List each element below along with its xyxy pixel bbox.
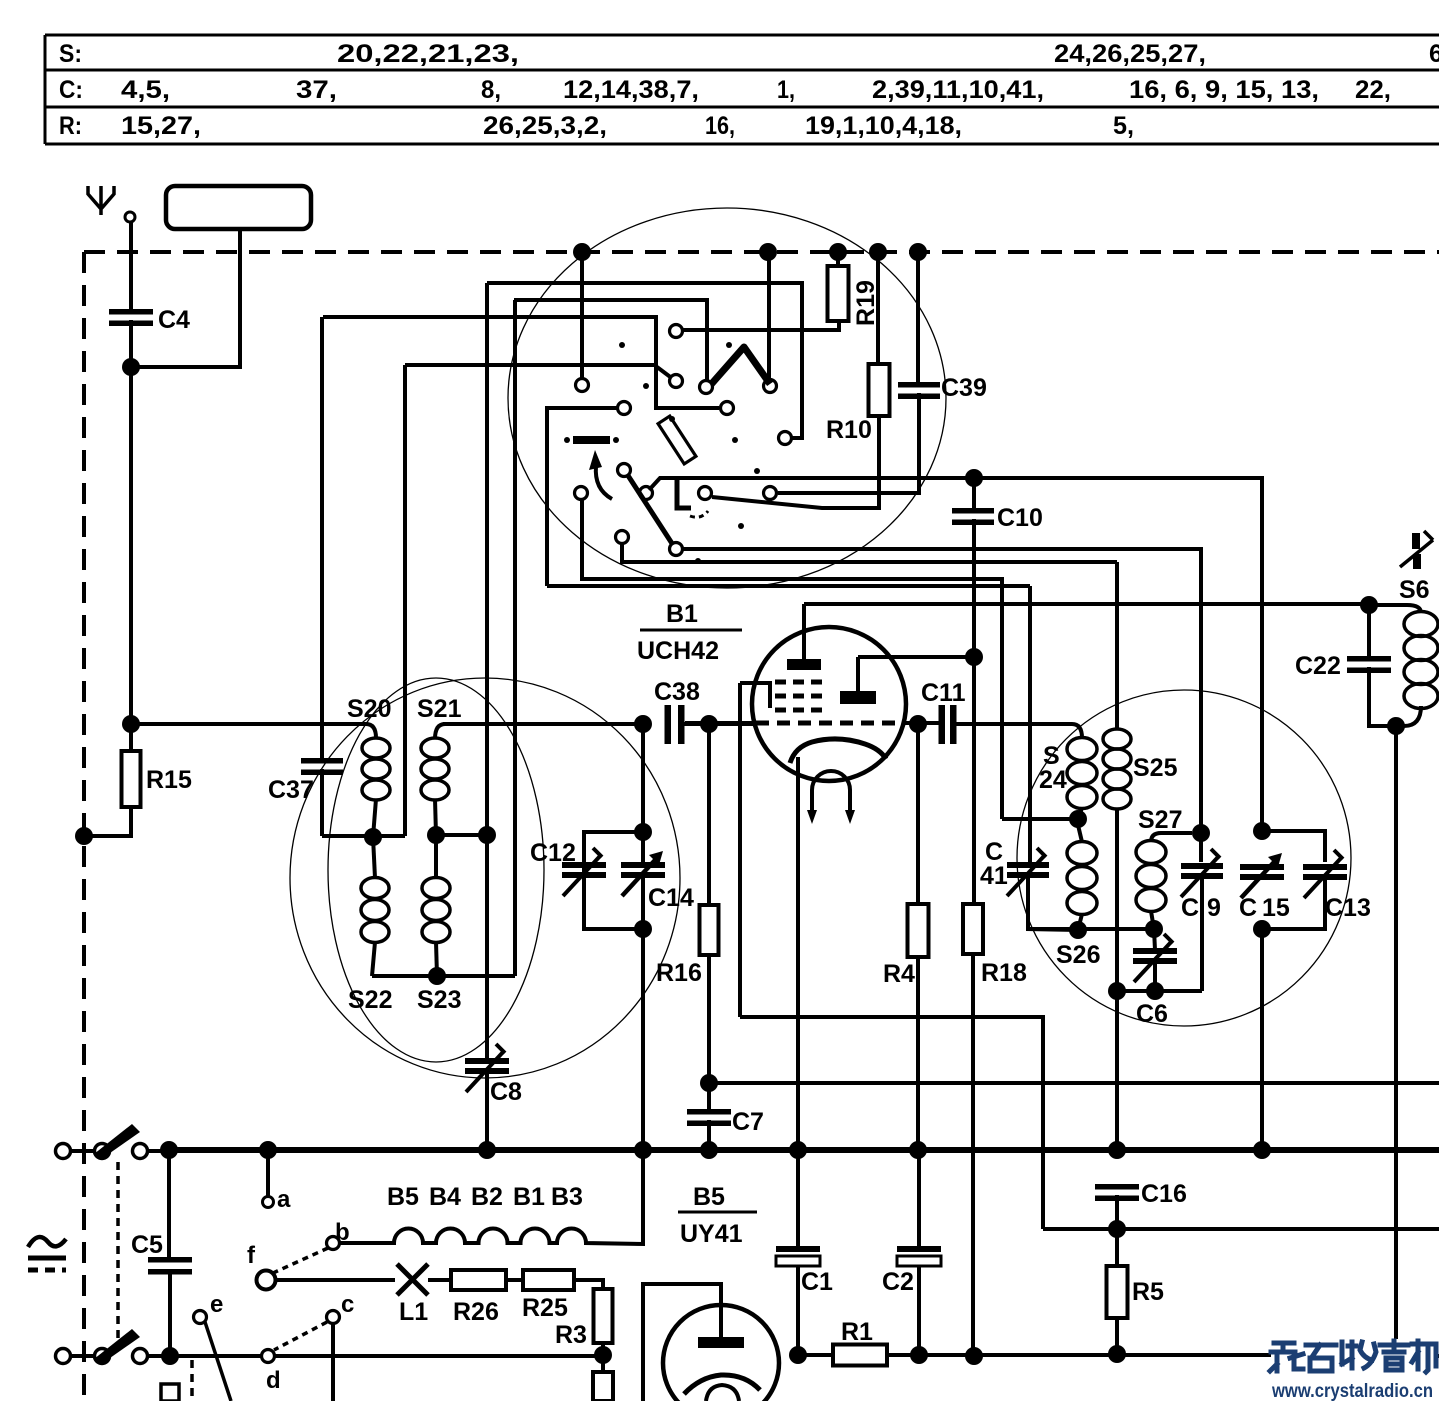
node C38 right (700, 715, 718, 733)
node S6 bottom (1387, 717, 1405, 735)
svg-text:B1: B1 (513, 1183, 545, 1211)
svg-text:S23: S23 (417, 986, 461, 1014)
svg-text:C12: C12 (530, 839, 576, 867)
trimmer C6 (1133, 929, 1177, 1028)
node C8 feed (478, 826, 496, 844)
svg-text:R5: R5 (1132, 1278, 1164, 1306)
svg-text:R16: R16 (656, 959, 702, 987)
wire S27 feed (683, 549, 1201, 833)
coil S25 (1103, 729, 1178, 809)
svg-text:B4: B4 (429, 1183, 461, 1211)
node S26 bottom (1069, 921, 1087, 939)
svg-text:C: C (1181, 894, 1199, 922)
node dashed bus 4 (869, 243, 887, 261)
svg-text:R19: R19 (852, 280, 880, 326)
tube B5 UY41 envelope (663, 1183, 779, 1401)
trimmer C8 (465, 835, 522, 1150)
node C15 bottom (1253, 920, 1271, 938)
svg-text:S:: S: (59, 40, 82, 68)
node C38 left (634, 715, 652, 733)
wire S21 to C38 (443, 722, 643, 726)
contact f (247, 1242, 276, 1290)
contact R19 (670, 325, 683, 338)
UY41 cathode (684, 1375, 760, 1394)
resistor R4 (883, 724, 929, 988)
lamp L1 (276, 1264, 428, 1326)
capacitor C5 (131, 1150, 192, 1356)
node S20 bottom (364, 828, 382, 846)
wire C4 down to main node (129, 320, 133, 724)
node dashed bus 2 (759, 243, 777, 261)
node C10 line (965, 469, 983, 487)
wire S22 bottom (372, 942, 375, 976)
node C2 bottom (910, 1346, 928, 1364)
capacitor C10 (952, 478, 1043, 657)
rotation arrow (589, 450, 612, 499)
component index table (45, 35, 1439, 144)
svg-text:e: e (210, 1291, 223, 1318)
svg-text:UCH42: UCH42 (637, 637, 719, 665)
wire left tap link (547, 408, 618, 586)
antenna terminal (88, 186, 135, 222)
wire junction row S20 (322, 834, 405, 838)
svg-text:8,: 8, (481, 76, 501, 104)
heater chain B5 B4 B2 B1 B3 (340, 1150, 643, 1244)
ganged tuning outline middle (290, 678, 680, 1078)
svg-text:12,14,38,7,: 12,14,38,7, (563, 76, 699, 104)
resistor R16 (656, 724, 719, 987)
wire R19 to contact (683, 321, 839, 330)
node C14 top (634, 823, 652, 841)
wire d line (178, 1354, 603, 1358)
contact S24 feed (575, 487, 588, 500)
rotor vane (658, 416, 696, 464)
wire R16 down (707, 955, 711, 1109)
node C6 bottom (1146, 982, 1164, 1000)
resistor R25 (506, 1270, 574, 1322)
wire R18 down to output line (971, 954, 975, 1356)
capacitor C2 (882, 1150, 941, 1355)
node triode anode junction (965, 648, 983, 666)
coil S21 (417, 695, 462, 800)
svg-text:R4: R4 (883, 960, 915, 988)
rotor arm lower (627, 474, 673, 545)
wire C10 feed (649, 478, 974, 490)
svg-text:16,: 16, (705, 112, 735, 140)
svg-text:19,1,10,4,18,: 19,1,10,4,18, (805, 112, 962, 140)
svg-text:15: 15 (1262, 894, 1290, 922)
heater (807, 771, 855, 824)
svg-text:C22: C22 (1295, 652, 1341, 680)
ganged tuning outline left (328, 678, 544, 1062)
svg-text:f: f (247, 1242, 256, 1269)
node R3 bottom (594, 1346, 612, 1364)
svg-text:a: a (277, 1186, 291, 1213)
svg-text:C16: C16 (1141, 1180, 1187, 1208)
wire c down (331, 1323, 335, 1401)
svg-text:S25: S25 (1133, 754, 1178, 782)
contact left tap (618, 402, 631, 415)
coil S6 (1369, 576, 1438, 726)
wire S21 feed (487, 283, 802, 438)
capacitor C39 (898, 252, 987, 402)
wire C38 node down (641, 724, 645, 865)
wire C7 to bus (707, 1120, 711, 1150)
svg-text:R15: R15 (146, 766, 192, 794)
wire AVC line (709, 1081, 1439, 1085)
svg-text:C8: C8 (490, 1078, 522, 1106)
svg-text:C4: C4 (158, 306, 190, 334)
trimmer C13 (1262, 831, 1371, 929)
svg-text:24,26,25,27,: 24,26,25,27, (1054, 40, 1206, 68)
svg-text:C38: C38 (654, 678, 700, 706)
wafer position dots (619, 342, 760, 564)
capacitor C16 (1095, 1180, 1187, 1229)
svg-text:B1: B1 (666, 600, 698, 628)
svg-text:C13: C13 (1325, 894, 1371, 922)
resistor R10 (826, 252, 890, 444)
contact c (327, 1291, 355, 1324)
diagonal to contact (657, 367, 673, 379)
svg-text:S27: S27 (1138, 806, 1182, 834)
coil S22 (348, 837, 392, 1014)
wire S25 feed (622, 543, 1117, 562)
switch link dashed (116, 1162, 120, 1346)
wire R10 to contact (712, 416, 879, 508)
capacitor C22 (1295, 605, 1396, 726)
fuse (161, 1384, 179, 1401)
svg-text:5,: 5, (1113, 112, 1134, 140)
UY41 anode (643, 1284, 744, 1401)
chassis dashed border (84, 252, 1439, 1401)
svg-text:c: c (341, 1291, 354, 1318)
wire antenna to C4 (129, 222, 133, 309)
svg-text:20,22,21,23,: 20,22,21,23, (337, 40, 519, 68)
svg-text:C5: C5 (131, 1231, 163, 1259)
coil S23 (417, 841, 461, 1014)
node S23 bottom (428, 967, 446, 985)
node above R15 (122, 715, 140, 733)
signal grid dashed (685, 721, 939, 725)
chassis junction (75, 827, 93, 845)
contact (576, 379, 589, 392)
node C7 top (700, 1074, 718, 1092)
svg-text:S26: S26 (1056, 941, 1100, 969)
wire S6 bottom down (1394, 726, 1398, 1339)
wire screen grid left (738, 683, 742, 1017)
UY41 heater (706, 1385, 739, 1401)
contact e (194, 1291, 224, 1324)
node S27 bottom (1145, 920, 1163, 938)
node padder junction (1108, 982, 1126, 1000)
wire C14 to earth bus (641, 875, 645, 1150)
svg-text:9: 9 (1207, 894, 1221, 922)
svg-text:R26: R26 (453, 1298, 499, 1326)
wire output right stub (1434, 1354, 1439, 1358)
contact S27 feed (670, 543, 683, 556)
bus node (160, 1141, 178, 1159)
svg-text:S6: S6 (1399, 576, 1430, 604)
resistor R15 (122, 724, 192, 807)
terminal box (166, 186, 311, 229)
bus node (700, 1141, 718, 1159)
bus node (789, 1141, 807, 1159)
node dashed bus 5 (909, 243, 927, 261)
oscillator section circle (1017, 690, 1351, 1026)
node C16 bottom (1108, 1220, 1126, 1238)
svg-text:C:: C: (59, 76, 83, 104)
switch link c-d dashed (274, 1322, 327, 1350)
wire screen line (1043, 1227, 1439, 1231)
wire S23 bottom (436, 942, 437, 976)
switch link b-f dashed (273, 1248, 328, 1273)
capacitor C1 (776, 1150, 833, 1355)
watermark logo (1270, 1341, 1436, 1372)
wire C38 to tube (684, 722, 756, 726)
wire box to node A (131, 229, 240, 367)
svg-text:R:: R: (59, 112, 82, 140)
svg-text:C10: C10 (997, 504, 1043, 532)
svg-text:22,: 22, (1355, 76, 1391, 104)
wire R5 down (1115, 1318, 1119, 1354)
node A (122, 358, 140, 376)
wire output line (887, 1353, 1271, 1357)
resistor R5 (1107, 1229, 1165, 1318)
svg-text:2,39,11,10,41,: 2,39,11,10,41, (872, 76, 1044, 104)
node R18 line (965, 1347, 983, 1365)
contact C10 feed (640, 487, 653, 500)
node R4 top (909, 715, 927, 733)
node S24 bottom (1069, 810, 1087, 828)
svg-text:R3: R3 (555, 1321, 587, 1349)
svg-text:www.crystalradio.cn: www.crystalradio.cn (1271, 1380, 1433, 1401)
node dashed bus 3 (829, 243, 847, 261)
variable capacitor C14 (621, 851, 694, 912)
tube B1 UCH42 envelope (637, 600, 906, 781)
svg-text:R10: R10 (826, 416, 872, 444)
svg-text:S22: S22 (348, 986, 392, 1014)
wire S24 bottom (1078, 808, 1082, 819)
trimmer C9 (1181, 833, 1223, 991)
node S27 top (1192, 824, 1210, 842)
wire S26 bottom (1078, 914, 1082, 930)
wire S24 tap (1002, 817, 1078, 821)
wire screen return (740, 1017, 1043, 1229)
wire S21 bottom (435, 799, 436, 835)
contact S25 feed (616, 531, 629, 544)
bus node (478, 1141, 496, 1159)
contact C39 (764, 487, 777, 500)
wire S25 vertical (1115, 562, 1119, 1150)
node C14 bottom (634, 920, 652, 938)
svg-text:C39: C39 (941, 374, 987, 402)
svg-text:C2: C2 (882, 1268, 914, 1296)
svg-text:C11: C11 (921, 679, 966, 707)
svg-text:C7: C7 (732, 1108, 764, 1136)
contact tap (670, 375, 683, 388)
wire C15 bottom to bus (1260, 929, 1264, 1150)
contact S21 feed (779, 432, 792, 445)
svg-text:4,5,: 4,5, (121, 76, 170, 104)
trimmer C41 (980, 586, 1078, 930)
wire R15 to chassis (84, 807, 131, 836)
svg-text:UY41: UY41 (680, 1220, 743, 1248)
node C15 top (1253, 822, 1271, 840)
bus node (259, 1141, 277, 1159)
capacitor C11 (921, 679, 966, 744)
svg-text:37,: 37, (296, 76, 337, 104)
bus node (1108, 1141, 1126, 1159)
contact R10 (699, 487, 712, 500)
coil S27 (1136, 806, 1192, 912)
contact lower right (721, 402, 734, 415)
capacitor C38 (654, 678, 700, 744)
svg-text:B2: B2 (471, 1183, 503, 1211)
wire C39 to contact (778, 393, 919, 493)
contact osc rotor (618, 464, 631, 477)
svg-text:C: C (1239, 894, 1257, 922)
rotor index mark (564, 436, 619, 444)
grid rows (740, 682, 823, 710)
svg-text:C1: C1 (801, 1268, 833, 1296)
bus node (1253, 1141, 1271, 1159)
svg-text:R25: R25 (522, 1294, 568, 1322)
wire S20 feed (405, 363, 656, 367)
svg-text:d: d (266, 1367, 281, 1394)
wire S27 bottom (1151, 911, 1154, 929)
svg-text:C37: C37 (268, 776, 314, 804)
svg-text:15,27,: 15,27, (121, 112, 201, 140)
resistor R18 (963, 657, 1027, 987)
svg-text:B3: B3 (551, 1183, 583, 1211)
node R5 bottom (1108, 1345, 1126, 1363)
capacitor C4 (109, 306, 190, 334)
cathode (790, 739, 886, 763)
svg-text:1,: 1, (777, 76, 795, 104)
node C5 bottom (161, 1347, 179, 1365)
node S6 top (1360, 596, 1378, 614)
wire junction row S21 (436, 833, 487, 837)
wire R4 to bus (916, 957, 920, 1150)
wire padder row (1117, 989, 1202, 993)
svg-text:S21: S21 (417, 695, 462, 723)
link dashes (190, 1360, 194, 1401)
mains switch lower pole (56, 1329, 163, 1365)
wire to contact (580, 252, 584, 381)
mains switch upper pole (56, 1124, 162, 1160)
wire S24 feed (582, 498, 1002, 819)
rotor V arm (700, 347, 777, 394)
node S21 bottom (427, 826, 445, 844)
triode anode (840, 657, 876, 704)
resistor R2 (593, 1343, 613, 1401)
wire C11 to S24 (956, 722, 1072, 726)
wire S20 bottom (373, 799, 376, 837)
wire bottom junction row (372, 974, 515, 978)
wire triode anode to C10 node (858, 655, 974, 659)
svg-text:24: 24 (1039, 766, 1067, 794)
adjustable core symbol (1400, 531, 1433, 569)
node dashed bus 1 (573, 243, 591, 261)
lever e (205, 1322, 231, 1401)
wire to rotor contact (767, 252, 771, 381)
mains AC symbol (28, 1237, 66, 1270)
capacitor C7 (687, 1108, 764, 1136)
svg-text:R18: R18 (981, 959, 1027, 987)
wire hexode anode to S6 line (804, 602, 1369, 606)
hexode anode (787, 604, 821, 670)
wire C37 feed (323, 317, 719, 408)
svg-text:26,25,3,2,: 26,25,3,2, (483, 112, 607, 140)
svg-text:L1: L1 (399, 1298, 428, 1326)
contact d (262, 1350, 281, 1395)
contact a (263, 1150, 292, 1213)
wire C10 node to C15 (974, 478, 1262, 831)
node C1 bottom (789, 1346, 807, 1364)
capacitor C37 (268, 317, 343, 836)
earth bus line (169, 1147, 1439, 1153)
wire V-arm feed (514, 300, 707, 381)
svg-text:B5: B5 (387, 1183, 419, 1211)
wire main line left (131, 722, 368, 726)
resistor R3 (555, 1280, 613, 1349)
rotary band switch S1 upper wafer (508, 208, 946, 588)
wire cathode down to bus (796, 757, 800, 1150)
svg-text:16, 6, 9, 15, 13,: 16, 6, 9, 15, 13, (1129, 76, 1319, 104)
coil S20 (347, 695, 391, 800)
coil S26 (1056, 825, 1100, 969)
svg-text:41: 41 (980, 862, 1008, 890)
resistor R19 (828, 252, 881, 326)
svg-text:6: 6 (1429, 40, 1439, 68)
bus node (634, 1141, 652, 1159)
resistor R26 (428, 1270, 506, 1326)
rotor stub (677, 478, 708, 517)
coil S24 (1039, 724, 1097, 809)
trimmer C12 (530, 832, 643, 929)
resistor R1 (798, 1318, 887, 1366)
bus node (909, 1141, 927, 1159)
variable capacitor C15 (1239, 853, 1290, 922)
wire C41 feed (547, 584, 1030, 588)
wire band tap risers (405, 283, 515, 976)
svg-text:R1: R1 (841, 1318, 873, 1346)
svg-text:C14: C14 (648, 884, 694, 912)
svg-text:B5: B5 (693, 1183, 725, 1211)
contact b (327, 1219, 350, 1250)
svg-text:C6: C6 (1136, 1000, 1168, 1028)
wire S26-S27 bottom row (1028, 927, 1154, 931)
